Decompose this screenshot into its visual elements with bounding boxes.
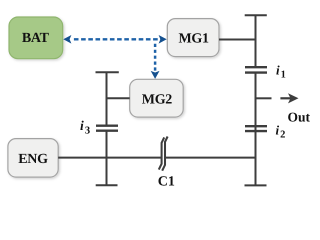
wire ENG main line left of clutch (58, 157, 161, 159)
motor-generator box MG2 (130, 79, 184, 117)
gear pair i2 (245, 126, 267, 131)
intermediate shaft left: bottom cap (96, 184, 118, 186)
intermediate shaft left: top cap (96, 71, 119, 73)
engine box ENG (8, 139, 58, 178)
output shaft right: lower segment (255, 73, 257, 186)
svg-text:BAT: BAT (22, 31, 50, 46)
battery box BAT (9, 17, 63, 59)
svg-text:i1: i1 (276, 63, 286, 81)
svg-text:i2: i2 (276, 123, 286, 141)
wire main line right of clutch (165, 157, 256, 159)
clutch C1 (159, 137, 168, 171)
gear pair i1 (245, 67, 267, 72)
dashed electrical link BAT-MG1 (63, 35, 166, 44)
wire MG2 to intermediate shaft (107, 97, 130, 99)
svg-text:MG2: MG2 (142, 93, 173, 108)
output shaft right: top cap (245, 14, 267, 16)
svg-text:i3: i3 (80, 118, 90, 136)
gear pair i3 (96, 126, 118, 131)
intermediate shaft left: lower segment (106, 131, 108, 186)
svg-text:ENG: ENG (18, 152, 48, 167)
svg-text:C1: C1 (158, 174, 175, 189)
output shaft right: upper segment (255, 15, 257, 67)
output shaft right: bottom cap (245, 184, 267, 186)
svg-text:MG1: MG1 (178, 32, 209, 47)
motor-generator box MG1 (167, 19, 219, 57)
intermediate shaft left: upper segment (106, 72, 108, 125)
wire MG1 to output shaft (219, 39, 256, 41)
output stub wire (256, 97, 272, 99)
svg-text:Out: Out (288, 110, 311, 125)
output arrow (280, 93, 298, 103)
dashed electrical branch to MG2 (151, 44, 160, 79)
